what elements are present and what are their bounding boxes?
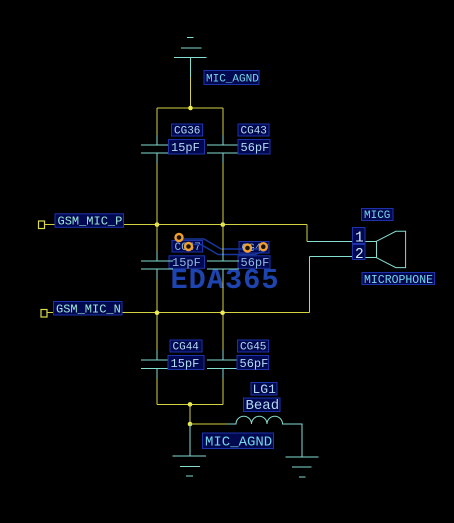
svg-text:56pF: 56pF bbox=[241, 141, 270, 155]
ground GND bottom-right bbox=[286, 448, 319, 477]
svg-text:56pF: 56pF bbox=[240, 357, 269, 371]
pin number 1 (MICG) bbox=[353, 228, 366, 247]
port GSM_MIC_N terminal bbox=[41, 310, 47, 318]
watermark EDA365 swoosh bbox=[182, 239, 269, 255]
junction GSM_MIC_P / right vertical bbox=[221, 222, 226, 227]
svg-text:MIC_AGND: MIC_AGND bbox=[206, 74, 259, 86]
designator CG36 bbox=[172, 124, 203, 138]
designator CG45 bbox=[238, 340, 269, 354]
wire rise to microphone pin 2 bbox=[309, 257, 311, 313]
wire left vertical segments bbox=[156, 108, 158, 404]
svg-text:MICG: MICG bbox=[364, 210, 390, 222]
junction GSM_MIC_N / left vertical bbox=[155, 310, 160, 315]
net label MIC_AGND (bottom) bbox=[203, 433, 274, 451]
svg-text:CG43: CG43 bbox=[241, 126, 267, 138]
svg-text:Bead: Bead bbox=[246, 398, 280, 414]
capacitor CG45 bbox=[207, 350, 239, 378]
svg-text:CG45: CG45 bbox=[240, 342, 266, 354]
designator CG43 bbox=[238, 124, 269, 138]
wire bottom rail bbox=[157, 403, 223, 405]
designator CG46 bbox=[239, 242, 269, 256]
wire right vertical segments bbox=[222, 108, 224, 404]
svg-text:GSM_MIC_N: GSM_MIC_N bbox=[56, 302, 121, 316]
svg-text:CG44: CG44 bbox=[173, 342, 200, 354]
capacitor CG36 bbox=[141, 135, 173, 163]
marker orange circle 3 bbox=[244, 245, 251, 252]
junction bottom rail bbox=[188, 402, 193, 407]
microphone MICG body bbox=[365, 231, 406, 267]
ground GND bottom-left bbox=[172, 424, 206, 476]
designator MICG bbox=[362, 209, 394, 223]
designator CG47 bbox=[172, 241, 203, 255]
label MICROPHONE bbox=[362, 273, 435, 288]
port GSM_MIC_P terminal bbox=[39, 221, 45, 229]
junction GSM_MIC_P / left vertical bbox=[155, 222, 160, 227]
junction ground node bbox=[188, 422, 193, 427]
svg-text:GSM_MIC_P: GSM_MIC_P bbox=[58, 215, 123, 229]
svg-text:LG1: LG1 bbox=[253, 382, 277, 397]
capacitor CG44 bbox=[141, 350, 173, 378]
wire ground node to bead bbox=[190, 423, 228, 425]
net label GSM_MIC_P bbox=[55, 214, 124, 229]
value 56pF (CG43) bbox=[238, 140, 270, 155]
svg-text:15pF: 15pF bbox=[171, 357, 200, 371]
svg-text:MIC_AGND: MIC_AGND bbox=[205, 435, 272, 451]
marker orange circle 4 bbox=[260, 243, 267, 250]
capacitor CG43 bbox=[207, 135, 239, 163]
svg-text:2: 2 bbox=[355, 247, 364, 263]
designator CG44 bbox=[170, 340, 202, 354]
designator LG1 bbox=[251, 382, 277, 397]
value 56pF (CG46) bbox=[238, 256, 270, 270]
net label GSM_MIC_N bbox=[54, 302, 123, 317]
microphone MICG leads bbox=[307, 241, 365, 256]
value 56pF (CG45) bbox=[237, 356, 269, 371]
wire GSM_MIC_N bbox=[47, 312, 310, 314]
marker orange circle 1 bbox=[176, 234, 183, 241]
junction top rail bbox=[188, 106, 193, 111]
value 15pF (CG47) bbox=[169, 256, 205, 270]
pin number 2 (MICG) bbox=[353, 245, 366, 263]
wire ground stub to top rail bbox=[190, 77, 192, 108]
capacitor CG47 bbox=[141, 251, 173, 279]
junction GSM_MIC_N / right vertical bbox=[220, 310, 225, 315]
svg-text:CG36: CG36 bbox=[174, 126, 200, 138]
net label MIC_AGND (top) bbox=[204, 71, 259, 86]
wire top rail bbox=[157, 107, 223, 109]
value Bead (LG1) bbox=[244, 398, 281, 414]
wire stub to ground node bbox=[189, 404, 191, 424]
value 15pF (CG44) bbox=[168, 356, 204, 371]
wire drop to microphone pin 1 bbox=[306, 225, 308, 242]
ground GND top (inverted earth) bbox=[174, 38, 207, 77]
marker orange circle 2 bbox=[185, 243, 192, 250]
inductor LG1 (bead) bbox=[228, 416, 302, 448]
value 15pF (CG36) bbox=[169, 140, 205, 155]
svg-text:MICROPHONE: MICROPHONE bbox=[364, 274, 433, 287]
wire GSM_MIC_P bbox=[45, 224, 307, 226]
capacitor CG46 bbox=[207, 251, 239, 279]
svg-text:15pF: 15pF bbox=[171, 141, 200, 155]
